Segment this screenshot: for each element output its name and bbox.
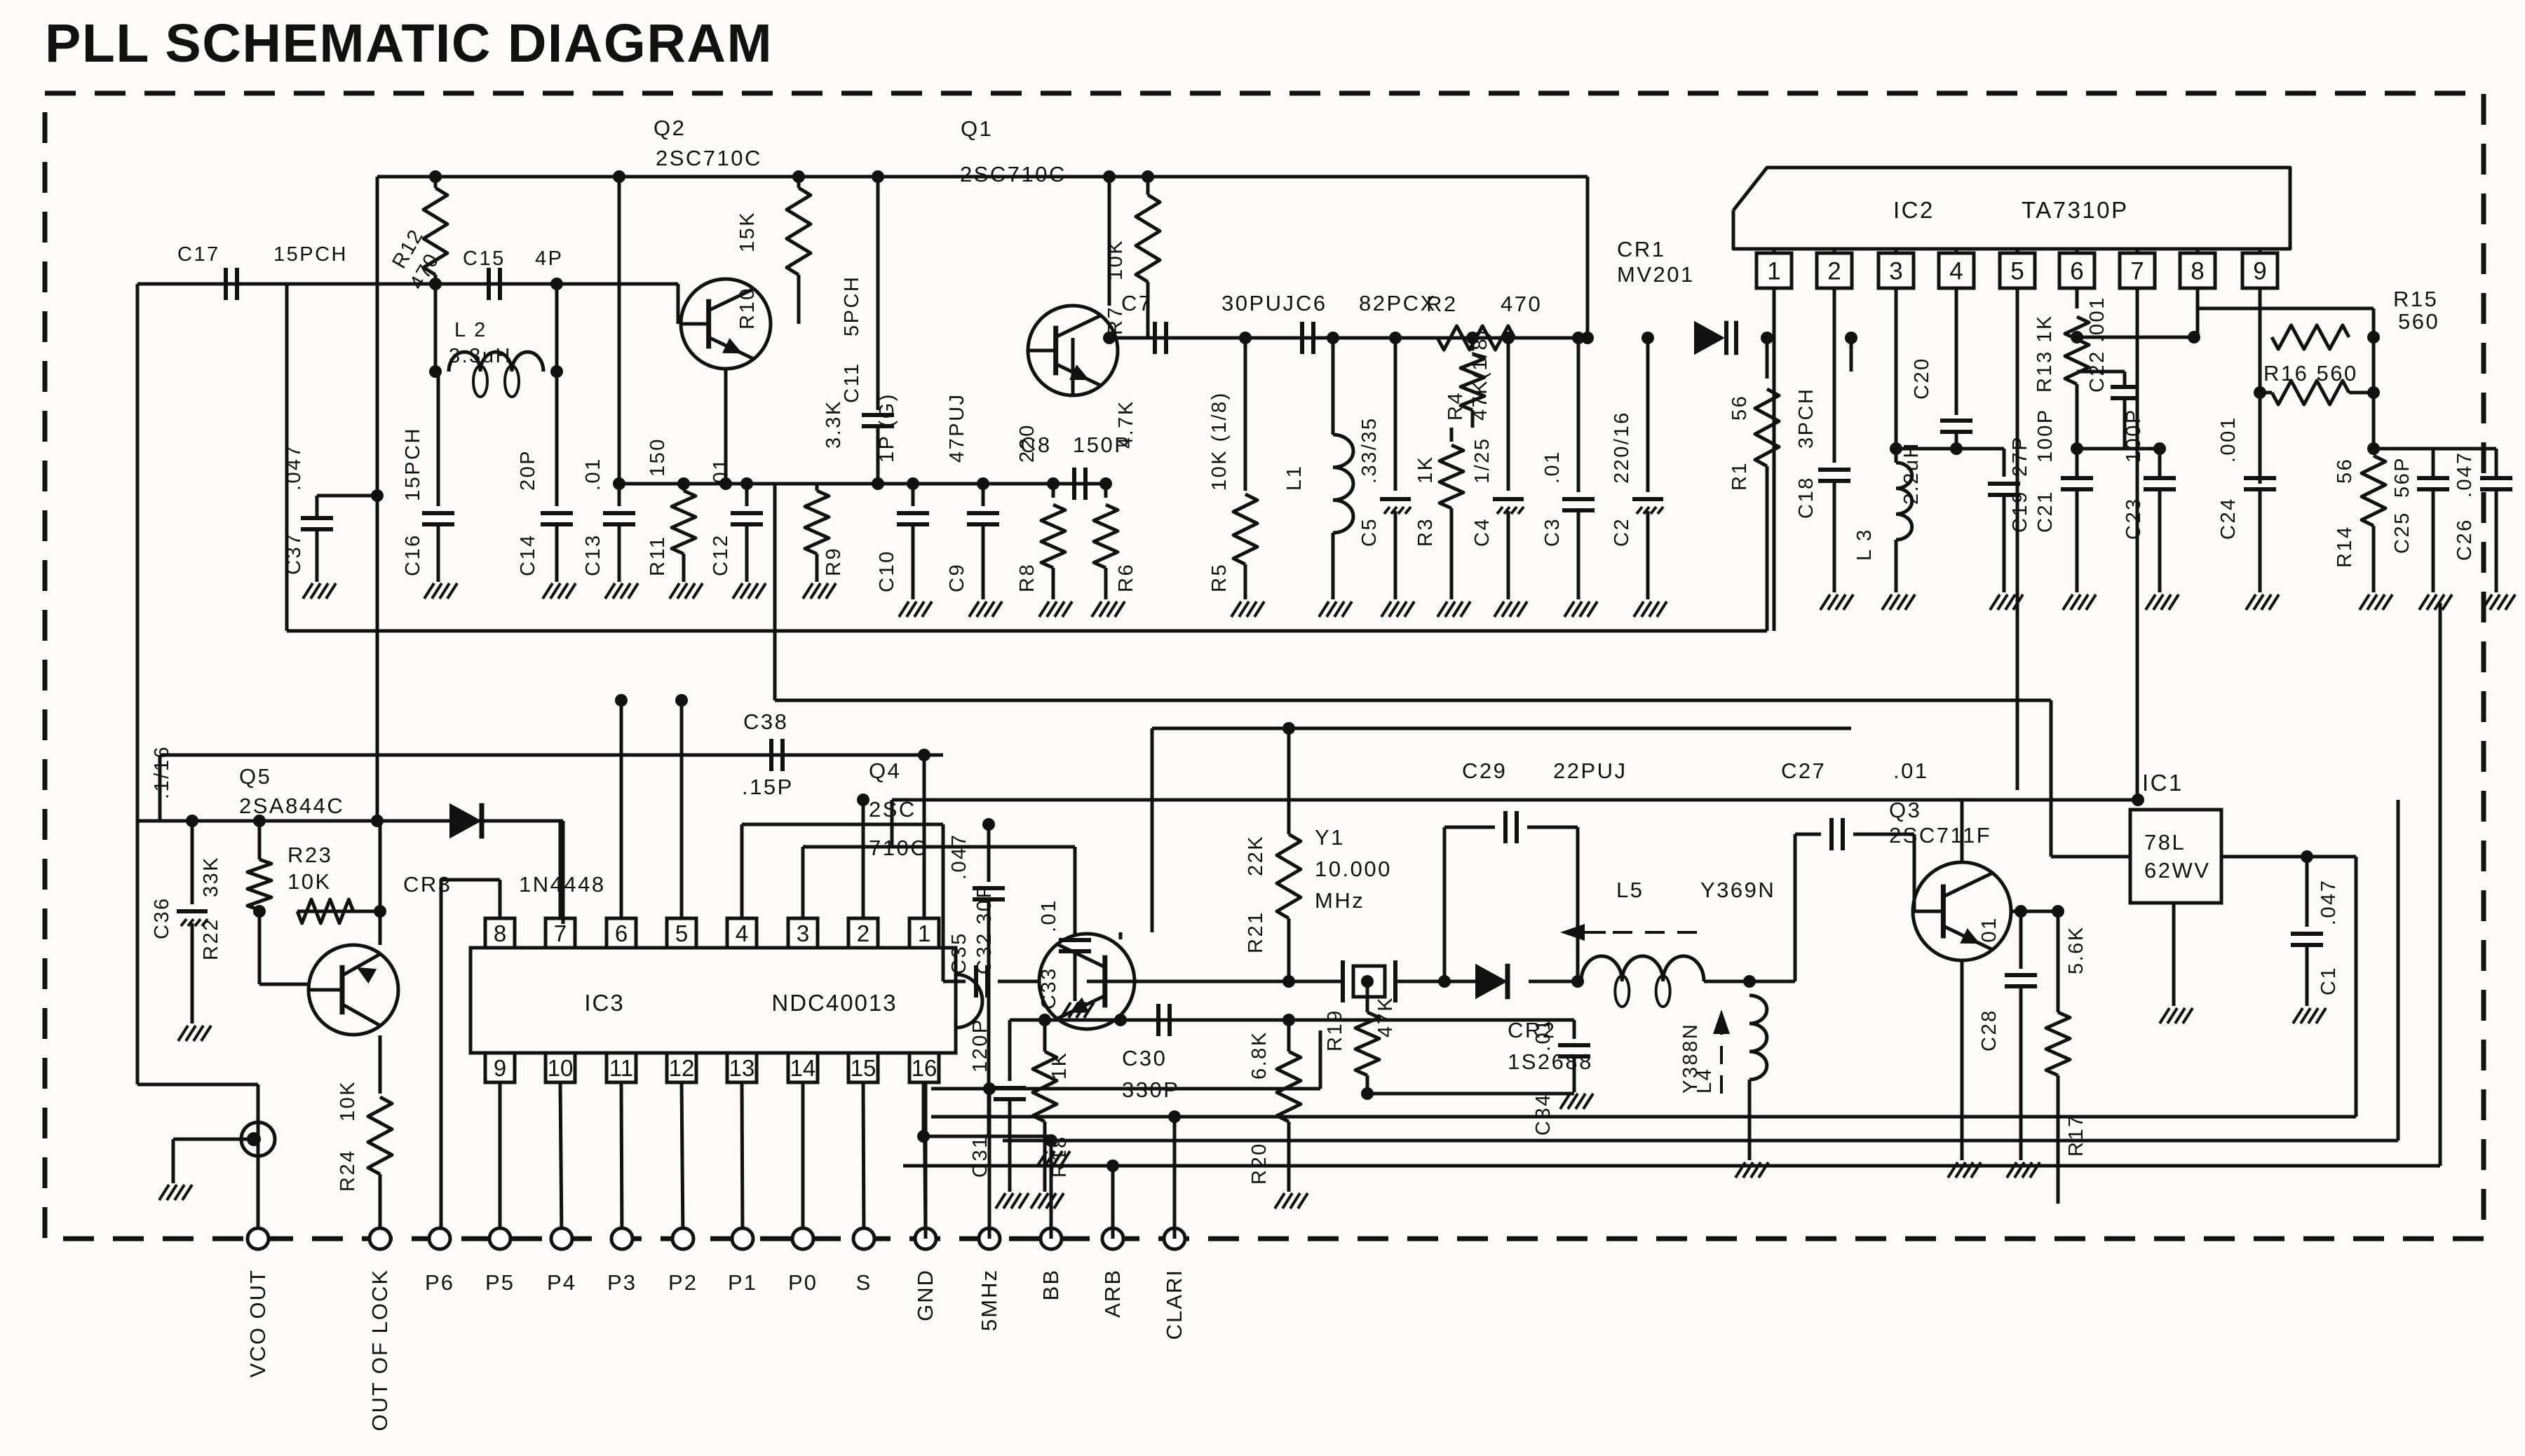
svg-text:C13: C13 — [582, 533, 604, 576]
svg-text:R14: R14 — [2334, 525, 2356, 568]
svg-text:Y388N: Y388N — [1679, 1023, 1702, 1094]
svg-text:VCO OUT: VCO OUT — [245, 1269, 270, 1377]
svg-text:R6: R6 — [1115, 563, 1137, 592]
svg-text:L5: L5 — [1616, 878, 1644, 902]
svg-text:.01: .01 — [1532, 1018, 1555, 1052]
svg-text:R22: R22 — [200, 918, 222, 960]
svg-text:Q5: Q5 — [239, 764, 271, 789]
svg-text:C32 30P: C32 30P — [973, 883, 996, 974]
svg-text:C22 .001: C22 .001 — [2086, 296, 2108, 393]
svg-text:C35: C35 — [948, 932, 970, 974]
svg-text:.01: .01 — [1038, 899, 1060, 932]
svg-text:C10: C10 — [876, 550, 898, 592]
svg-text:R15: R15 — [2393, 287, 2438, 311]
svg-text:10.000: 10.000 — [1315, 857, 1392, 881]
svg-text:C24: C24 — [2217, 497, 2240, 540]
svg-text:120P: 120P — [969, 1018, 991, 1073]
svg-text:100P: 100P — [2123, 408, 2145, 463]
svg-text:2.2uH: 2.2uH — [1900, 442, 1923, 505]
svg-text:10K: 10K — [337, 1080, 359, 1122]
svg-text:C2: C2 — [1611, 517, 1633, 547]
svg-text:3: 3 — [797, 920, 809, 946]
svg-text:C30: C30 — [1122, 1046, 1167, 1070]
svg-text:56P: 56P — [2391, 456, 2414, 498]
svg-text:S: S — [856, 1270, 872, 1295]
svg-text:5PCH: 5PCH — [841, 275, 863, 336]
svg-text:TA7310P: TA7310P — [2022, 197, 2129, 223]
svg-text:15K: 15K — [736, 211, 759, 252]
svg-text:ARB: ARB — [1100, 1269, 1125, 1318]
svg-text:4: 4 — [1949, 258, 1963, 285]
svg-text:R16 560: R16 560 — [2263, 361, 2358, 386]
svg-text:3.3K: 3.3K — [823, 400, 845, 449]
svg-text:C6: C6 — [1296, 291, 1327, 315]
svg-text:C27: C27 — [1781, 758, 1826, 783]
svg-text:MHz: MHz — [1315, 888, 1365, 913]
svg-text:R17: R17 — [2065, 1114, 2087, 1157]
svg-text:2: 2 — [857, 920, 869, 946]
svg-text:13: 13 — [729, 1055, 755, 1081]
svg-text:R9: R9 — [823, 547, 845, 576]
svg-text:220/16: 220/16 — [1611, 411, 1633, 484]
svg-text:.047: .047 — [2317, 879, 2340, 925]
svg-text:.1/16: .1/16 — [151, 745, 173, 799]
svg-text:C12: C12 — [710, 533, 732, 576]
svg-text:150: 150 — [647, 437, 669, 477]
svg-text:GND: GND — [913, 1269, 937, 1321]
svg-text:C8: C8 — [1020, 433, 1052, 457]
svg-text:Q1: Q1 — [961, 116, 993, 141]
svg-text:P0: P0 — [788, 1270, 818, 1295]
svg-text:P6: P6 — [425, 1270, 454, 1295]
svg-text:C25: C25 — [2391, 511, 2414, 554]
svg-text:.01: .01 — [1893, 758, 1929, 783]
svg-text:P5: P5 — [485, 1270, 515, 1295]
svg-text:.001: .001 — [2217, 416, 2240, 463]
svg-text:10K (1/8): 10K (1/8) — [1208, 391, 1231, 491]
svg-text:10: 10 — [548, 1055, 574, 1081]
svg-text:C28: C28 — [1978, 1009, 2001, 1052]
svg-text:C16: C16 — [402, 533, 424, 576]
svg-text:22PUJ: 22PUJ — [1553, 758, 1627, 783]
svg-text:.047: .047 — [2453, 451, 2476, 498]
svg-text:L 2: L 2 — [454, 319, 487, 341]
svg-text:6: 6 — [615, 920, 628, 946]
svg-text:C15: C15 — [463, 247, 506, 270]
svg-text:1/25: 1/25 — [1471, 437, 1494, 484]
svg-text:3PCH: 3PCH — [1795, 388, 1817, 449]
svg-text:1: 1 — [918, 920, 930, 946]
svg-text:.01: .01 — [1541, 450, 1564, 484]
svg-text:15PCH: 15PCH — [402, 427, 424, 501]
svg-text:470: 470 — [1501, 292, 1542, 316]
svg-text:R13 1K: R13 1K — [2033, 314, 2056, 393]
svg-text:C34: C34 — [1532, 1093, 1555, 1136]
svg-text:R24: R24 — [337, 1149, 359, 1192]
svg-text:2SA844C: 2SA844C — [239, 794, 344, 818]
svg-text:3.3uH: 3.3uH — [449, 345, 512, 367]
svg-text:10K: 10K — [1104, 239, 1127, 280]
svg-text:.01: .01 — [710, 457, 732, 491]
svg-text:C20: C20 — [1911, 357, 1933, 400]
svg-text:R2: R2 — [1426, 292, 1458, 316]
svg-text:R19: R19 — [1324, 1009, 1346, 1052]
svg-text:R3: R3 — [1414, 517, 1437, 547]
svg-text:7: 7 — [2130, 258, 2144, 285]
svg-text:C23: C23 — [2123, 497, 2145, 540]
svg-text:47PUJ: 47PUJ — [946, 393, 968, 463]
svg-text:.01: .01 — [1978, 916, 2001, 950]
svg-text:8: 8 — [494, 920, 506, 946]
svg-text:R5: R5 — [1208, 563, 1231, 592]
svg-text:C9: C9 — [946, 563, 968, 592]
svg-text:2: 2 — [1827, 258, 1841, 285]
svg-text:BB: BB — [1038, 1269, 1063, 1300]
svg-text:5.6K: 5.6K — [2065, 925, 2087, 974]
svg-text:C1: C1 — [2317, 966, 2340, 995]
svg-text:R18: R18 — [1048, 1135, 1071, 1178]
svg-text:C33: C33 — [1038, 967, 1060, 1009]
svg-text:330P: 330P — [1122, 1077, 1179, 1102]
svg-text:C31: C31 — [969, 1135, 991, 1178]
svg-text:.01: .01 — [582, 457, 604, 491]
svg-text:56: 56 — [2334, 458, 2356, 484]
svg-text:C11: C11 — [841, 362, 863, 403]
svg-text:3: 3 — [1889, 258, 1902, 285]
svg-text:11: 11 — [609, 1055, 633, 1081]
svg-text:IC2: IC2 — [1893, 197, 1935, 223]
svg-text:14: 14 — [790, 1055, 816, 1081]
svg-text:100P: 100P — [2034, 408, 2057, 463]
svg-text:R11: R11 — [647, 535, 669, 576]
svg-text:C19: C19 — [2009, 490, 2031, 533]
svg-text:P3: P3 — [607, 1270, 637, 1295]
svg-text:P4: P4 — [547, 1270, 576, 1295]
svg-text:R21: R21 — [1245, 911, 1267, 953]
svg-text:CR1: CR1 — [1617, 237, 1666, 261]
svg-text:5: 5 — [675, 920, 688, 946]
svg-text:47K: 47K — [1374, 996, 1397, 1037]
svg-text:15: 15 — [851, 1055, 876, 1081]
svg-text:8: 8 — [2191, 258, 2204, 285]
svg-text:1: 1 — [1767, 258, 1780, 285]
svg-text:9: 9 — [2253, 258, 2266, 285]
svg-text:Y369N: Y369N — [1700, 878, 1775, 902]
svg-text:1S2688: 1S2688 — [1508, 1049, 1593, 1074]
svg-text:2SC710C: 2SC710C — [960, 162, 1067, 186]
svg-text:NDC40013: NDC40013 — [771, 990, 897, 1016]
svg-text:12: 12 — [669, 1055, 695, 1081]
svg-text:R4: R4 — [1444, 391, 1467, 421]
svg-text:7: 7 — [554, 920, 567, 946]
svg-text:9: 9 — [494, 1055, 506, 1081]
svg-text:Q2: Q2 — [654, 116, 686, 140]
svg-text:R20: R20 — [1248, 1142, 1271, 1185]
svg-text:P1: P1 — [728, 1270, 757, 1295]
svg-text:1K: 1K — [1414, 456, 1437, 484]
svg-text:C29: C29 — [1462, 758, 1507, 783]
svg-text:.047: .047 — [948, 834, 970, 880]
svg-text:C26: C26 — [2453, 518, 2476, 561]
svg-text:C38: C38 — [743, 709, 788, 734]
svg-text:C21: C21 — [2034, 490, 2057, 533]
svg-text:C14: C14 — [517, 533, 539, 576]
svg-text:IC3: IC3 — [584, 990, 624, 1016]
svg-text:C3: C3 — [1541, 517, 1564, 547]
svg-text:Q4: Q4 — [869, 758, 901, 783]
svg-text:62WV: 62WV — [2144, 858, 2210, 883]
svg-text:33K: 33K — [200, 856, 222, 897]
svg-text:C18: C18 — [1795, 476, 1817, 519]
svg-text:82PCX: 82PCX — [1359, 291, 1437, 315]
svg-text:2SC710C: 2SC710C — [656, 146, 762, 170]
svg-text:L1: L1 — [1283, 465, 1306, 491]
svg-text:MV201: MV201 — [1617, 262, 1695, 287]
svg-text:56: 56 — [1728, 395, 1751, 421]
svg-text:OUT OF LOCK: OUT OF LOCK — [367, 1269, 392, 1431]
svg-text:IC1: IC1 — [2142, 770, 2184, 796]
svg-text:560: 560 — [2398, 309, 2439, 334]
svg-text:Y1: Y1 — [1315, 825, 1345, 850]
svg-text:R10: R10 — [736, 287, 759, 329]
svg-text:C17: C17 — [177, 243, 220, 266]
svg-text:1K: 1K — [1048, 1052, 1071, 1080]
svg-text:10K: 10K — [287, 869, 332, 894]
svg-text:5: 5 — [2010, 258, 2024, 285]
svg-text:R1: R1 — [1728, 461, 1751, 491]
svg-text:30PUJ: 30PUJ — [1221, 291, 1296, 315]
svg-text:C5: C5 — [1358, 517, 1381, 547]
svg-text:P2: P2 — [668, 1270, 698, 1295]
svg-text:27P: 27P — [2009, 435, 2031, 477]
svg-text:R23: R23 — [287, 843, 332, 867]
svg-text:C7: C7 — [1121, 291, 1153, 315]
svg-text:.33/35: .33/35 — [1358, 416, 1381, 484]
svg-text:15PCH: 15PCH — [273, 243, 348, 266]
svg-text:4: 4 — [736, 920, 748, 946]
svg-text:78L: 78L — [2144, 830, 2186, 855]
svg-text:20P: 20P — [517, 449, 539, 491]
svg-text:C4: C4 — [1471, 517, 1494, 547]
svg-text:16: 16 — [912, 1055, 937, 1081]
svg-text:150P: 150P — [1073, 433, 1130, 457]
svg-text:R8: R8 — [1016, 563, 1038, 592]
svg-text:22K: 22K — [1245, 835, 1267, 876]
svg-text:6: 6 — [2070, 258, 2083, 285]
svg-text:CR3: CR3 — [403, 872, 452, 897]
svg-text:.15P: .15P — [742, 775, 794, 799]
svg-text:CLARI: CLARI — [1162, 1269, 1186, 1340]
svg-text:L 3: L 3 — [1853, 528, 1876, 561]
svg-text:5MHz: 5MHz — [977, 1269, 1001, 1331]
svg-text:2SC711F: 2SC711F — [1889, 823, 1991, 848]
svg-text:6.8K: 6.8K — [1248, 1030, 1271, 1080]
svg-text:PLL SCHEMATIC DIAGRAM: PLL SCHEMATIC DIAGRAM — [45, 13, 773, 74]
svg-text:4P: 4P — [535, 247, 563, 270]
svg-text:C36: C36 — [151, 897, 173, 939]
